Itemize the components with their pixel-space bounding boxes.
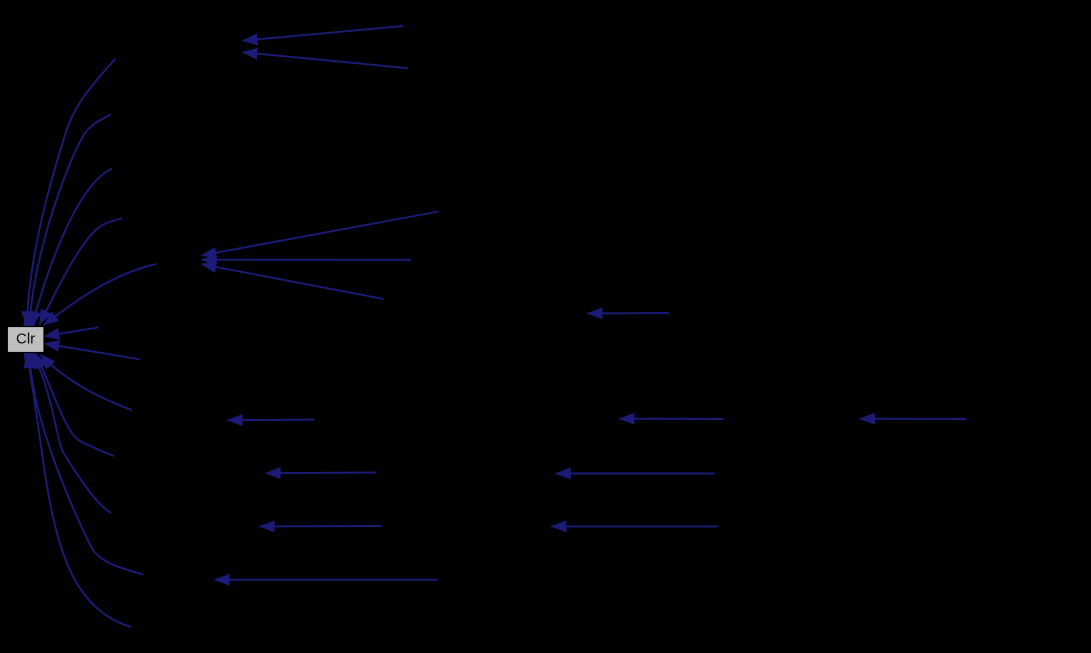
wire L5 curve bottom5 <box>27 353 132 627</box>
wire G1 row579 <box>215 579 438 581</box>
svg-text:Clr: Clr <box>16 331 35 348</box>
wire R3 right lower <box>44 343 139 359</box>
wire E2 row473 middle <box>556 473 715 475</box>
wire A2 top arrow lower <box>243 52 408 68</box>
wire C1 single arrow <box>587 312 668 314</box>
wire E1 row473 left <box>266 472 376 475</box>
node bottom arrowhead mass filler <box>24 353 37 367</box>
wire L2 curve bottom2 <box>36 353 114 456</box>
wire B3 fan bottom <box>201 264 383 299</box>
wire D1 row420 left <box>228 419 315 422</box>
wire F1 row526 left <box>260 525 382 527</box>
wire U1 curve top1 <box>27 59 116 327</box>
wire U5 curve top corner <box>44 264 157 325</box>
wire L3 curve bottom3 <box>32 353 111 513</box>
wire D3 row420 right <box>860 418 967 420</box>
wire R1 right short upper <box>44 327 98 336</box>
wire U4 curve top4 <box>40 218 123 324</box>
node top arrowhead mass filler <box>23 313 36 327</box>
wire F2 row526 middle <box>551 525 718 527</box>
wire A1 top arrow upper <box>243 26 404 41</box>
wire D2 row420 middle <box>619 418 723 420</box>
wire L1 curve bottom corner <box>41 355 133 411</box>
wire U2 curve top2 <box>30 114 111 326</box>
wire B1 fan top <box>201 212 438 256</box>
node Clr box <box>7 327 44 353</box>
wire B2 fan middle <box>201 259 411 261</box>
wire L4 curve bottom4 <box>30 353 144 575</box>
wire U3 curve top3 <box>32 169 112 327</box>
